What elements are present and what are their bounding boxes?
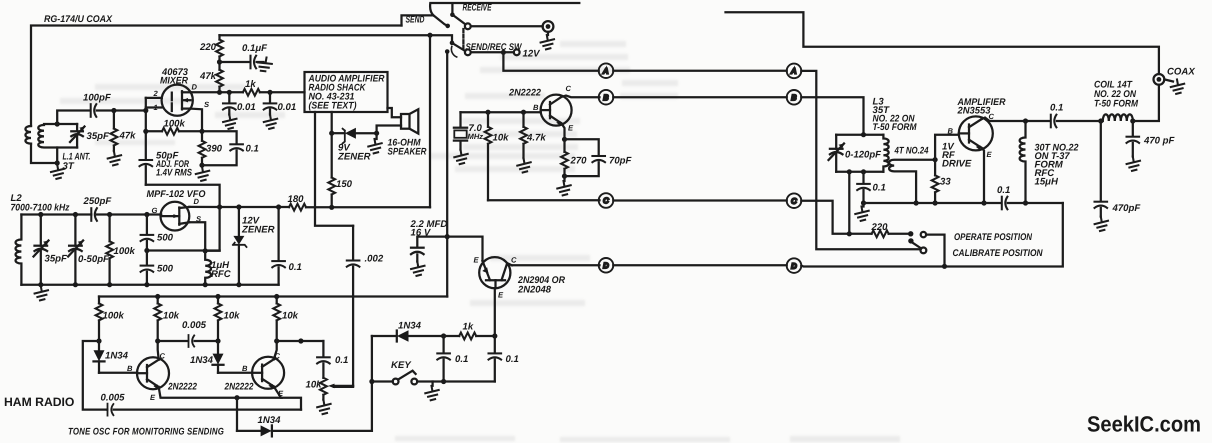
wire: amplifier collector line [982,118,1051,124]
svg-text:35pF: 35pF [45,254,69,265]
node circle C right [787,193,802,208]
svg-text:OPERATE POSITION: OPERATE POSITION [954,232,1033,243]
resistor 4.7k [520,112,527,158]
wire: RECEIVE line [430,3,579,15]
svg-text:10k: 10k [282,311,299,322]
switch arm: 12V pole [451,43,470,57]
resistor 100k mixer gate [146,128,205,135]
inductor L1 ANT. 3T [38,124,77,148]
inductor L3 35T [883,135,888,172]
svg-text:3T: 3T [63,161,75,172]
node: keyline contact [445,49,450,54]
svg-text:470pF: 470pF [1112,203,1142,214]
transistor 2N2222 7MHz oscillator [541,95,572,126]
svg-text:10k: 10k [163,311,180,322]
wire: C net from 10k to C node [488,199,600,201]
svg-text:G: G [152,206,158,215]
wire: gate 1 lead [146,106,162,108]
svg-text:E: E [474,256,480,265]
svg-text:RECEIVE: RECEIVE [463,3,492,14]
inductor L2 [16,215,22,285]
wire: Q2 collector riser [274,338,280,359]
svg-text:47k: 47k [119,131,137,142]
svg-text:180: 180 [288,194,305,205]
wire: Q1 collector riser [155,338,160,359]
ground at tank bypass [855,203,868,221]
svg-text:E: E [987,150,993,159]
resistor 10k (Q2 base feed) [215,297,222,344]
transistor 2N2222 tone Q1 [137,357,169,389]
wire: pole to 12V terminal [471,50,514,55]
svg-text:500: 500 [157,264,174,275]
capacitor 100pF coupling [91,104,97,117]
node circle D left [599,258,614,273]
resistor 220 (operate feed) [872,230,908,237]
svg-text:C: C [603,196,609,205]
svg-text:SEND/REC SW: SEND/REC SW [466,42,523,53]
wire: pole to antenna jack [471,25,543,27]
wire: L3 tank top [836,132,883,137]
node: L1 top [55,121,60,126]
svg-text:100k: 100k [164,119,186,130]
key switch [369,336,495,431]
svg-text:B: B [948,127,954,136]
resistor 10k (Q2 collector) [273,297,280,342]
svg-text:0-50pF: 0-50pF [78,254,110,265]
svg-text:0.1: 0.1 [873,183,886,194]
diode 1N34 (middle) [213,341,224,373]
svg-text:0.1: 0.1 [289,262,302,273]
wire: Q2 collector to 0.1 output [277,338,324,343]
svg-text:2N2048: 2N2048 [517,285,552,296]
svg-text:E: E [150,393,156,402]
svg-text:HAM RADIO: HAM RADIO [4,395,74,409]
svg-text:D: D [192,83,198,92]
svg-text:SEND: SEND [406,15,425,26]
transistor 2N3553 amplifier [959,116,993,150]
svg-text:0.1: 0.1 [997,185,1010,196]
crystal 7.0 MHz [454,112,467,150]
svg-text:MHz: MHz [468,132,484,141]
svg-text:C: C [275,352,281,361]
ground under second 0.01 [264,115,277,129]
antenna link coil 3T primary on coax [25,126,31,144]
capacitor 0.1 (tone output) [317,341,330,378]
capacitor 0.1 (key filter right) [489,336,502,382]
mosfet 40673 mixer [162,85,193,116]
diode 1N34 (bottom) [237,425,372,436]
wire: oscillator base rail [461,110,541,115]
terminal circle 12V [514,49,520,55]
node: 500pF tap on gate rail [144,212,149,217]
ground under 10k pot [317,400,330,414]
ground at 0.1uF [256,55,274,73]
ground under 470pF right [1127,157,1140,171]
svg-text:100pF: 100pF [83,93,112,104]
wire: osc collector to B line [561,96,599,98]
capacitor 0.1 (mixer source bypass) [202,131,243,165]
resistor 47k (drain load) [216,62,223,92]
ground under 270 [557,176,570,195]
dashed mechanical link SEND/REC SW [462,29,464,49]
wire: D bus [613,264,786,266]
node: L1 bottom ground node [55,148,60,166]
transistor 2N2904 keyer [479,257,512,288]
svg-text:A: A [602,66,608,75]
svg-text:0.1: 0.1 [506,354,519,365]
svg-text:CALIBRATE POSITION: CALIBRATE POSITION [953,248,1044,259]
capacitor 470pF (at coil output) [1127,121,1140,157]
wire: source node to feedback vertical [205,207,219,251]
ground at coax jack [1164,79,1184,94]
wire: mixer drain node [191,90,243,95]
svg-text:C: C [160,352,166,361]
wire: colpitts tap to source [147,249,220,251]
svg-text:70pF: 70pF [609,156,633,167]
svg-text:T-50 FORM: T-50 FORM [1094,99,1139,110]
node circle C left [599,193,614,208]
wire: B bus [613,96,786,98]
wire: L2 tank top rail [21,212,161,217]
ground at key [425,382,438,401]
coax output jack [1154,74,1165,85]
resistor 220 (decoupling) [216,35,223,64]
wire: SEND step on coax line [402,15,448,25]
wire: L2 tank bottom rail [21,282,278,287]
node circle A left [599,63,614,78]
svg-text:1N34: 1N34 [190,355,214,366]
wire: VFO drain rail to 180 [189,204,289,209]
svg-text:(SEE TEXT): (SEE TEXT) [309,101,357,112]
wire: D bus to amplifier return [801,203,1063,269]
jfet MPF-102 VFO [161,202,190,231]
resistor 10k (Q1 collector) [154,297,161,342]
svg-text:35pF: 35pF [87,131,111,142]
svg-text:0.1: 0.1 [335,355,348,366]
wire: A bus to operate switch [801,71,920,249]
wire: Q2 base lead [218,372,252,374]
svg-text:4T NO.24: 4T NO.24 [894,146,929,157]
diode 1N34 (key line) [372,330,446,341]
wire: coil to coax jack [1133,85,1159,121]
svg-text:1k: 1k [463,322,474,333]
node circle B right [787,90,802,105]
capacitor 50pF adjust [140,160,153,185]
svg-text:500: 500 [157,233,174,244]
resistor 150 [328,133,335,207]
wire: A bus [613,70,786,72]
svg-text:ZENER: ZENER [337,152,371,163]
coupling coil 4T NO.24 [889,157,938,206]
svg-text:S: S [196,215,201,224]
capacitor 0.1 (tank bottom bypass) [857,172,870,206]
wire: 12V down to A line [503,52,598,70]
ground at 9V zener [368,133,381,153]
svg-text:0.01: 0.01 [278,102,297,113]
svg-text:B: B [791,93,796,102]
svg-text:SeekIC.com: SeekIC.com [1087,412,1201,437]
svg-text:2: 2 [153,89,159,98]
contact circle: calibrate [921,232,926,237]
node circle B left [599,90,614,105]
svg-text:0.005: 0.005 [182,320,207,331]
wire: 2N2904 collector to D line [512,264,600,266]
wire: 2N2904 emitter feed [447,237,482,261]
svg-text:D: D [791,261,797,270]
wire: calibrate contact to D bus [926,235,944,264]
wire: +12V receive rail [220,33,453,43]
wire: 2N2904 base lead to 1k node [492,288,497,338]
zener diode 12V [233,207,247,285]
antenna jack [543,21,554,32]
svg-text:0.005: 0.005 [101,393,126,404]
capacitor 0.005 (feedback to coax) [107,404,301,416]
ground under 2.2 MFD [411,262,424,276]
wire: transmit line from top [726,12,1159,74]
svg-text:0.1: 0.1 [455,354,468,365]
capacitor 70pF [565,139,606,176]
svg-text:220: 220 [199,42,217,53]
resistor 100k (VFO gate) [106,215,113,285]
variable capacitor 0-50pF [68,215,83,285]
capacitor 2.2 MFD 16V electrolytic [411,237,447,262]
svg-text:2N2222: 2N2222 [167,382,197,393]
svg-text:E: E [498,291,504,300]
svg-text:2N2222: 2N2222 [508,88,542,99]
wire: amplifier ground rail [864,202,1063,204]
svg-text:B: B [533,103,539,112]
wire: 50pF bottom to VFO drain rail [146,185,220,207]
svg-text:B: B [127,364,133,373]
variable capacitor 35pF (L1 tank) [70,124,85,148]
wire: amplifier emitter to ground rail [981,148,986,206]
wire: mixer source to 100k/390 [190,109,202,132]
resistor 1k (keyer base) [444,333,495,340]
svg-text:470 pF: 470 pF [1143,136,1176,147]
ground on L2 bottom rail [35,286,48,300]
resistor 10k (osc base) [485,112,492,200]
diode 1N34 (left) [94,341,105,373]
wire: Q1 base lead [99,372,137,374]
ground under 47k antenna [108,151,121,165]
capacitor 0.01 (first) [223,92,236,114]
wire: C bus [613,199,786,201]
ground under crystal [454,150,467,164]
wire: gate 2 lead [146,97,162,99]
wire: pot wiper riser joins .002 line [352,385,354,387]
capacitor .002 [334,226,360,387]
wire: L1 top to 100pF [57,111,90,125]
wire: RG-174/U coax from antenna switch to receiver input [31,26,402,127]
capacitor 500 (upper) [141,215,154,254]
ground under 390 [196,167,209,181]
svg-text:1N34: 1N34 [398,321,422,332]
svg-text:1N34: 1N34 [105,351,129,362]
wire: box bottom to zener node [329,112,334,136]
svg-text:390: 390 [206,144,223,155]
node: send contact [445,24,450,29]
wire: link coil to L1 ground node [31,144,57,163]
node: operate contact [908,231,913,236]
svg-text:ZENER: ZENER [241,225,275,236]
svg-text:C: C [566,84,572,93]
svg-text:250pF: 250pF [83,196,113,207]
svg-text:KEY: KEY [391,360,412,371]
wire: B bus to L3 tank top [801,97,863,134]
svg-text:33: 33 [940,177,951,188]
svg-text:C: C [791,196,797,205]
svg-text:15μH: 15μH [1035,177,1059,188]
inductor COIL 14T output [1101,114,1136,123]
svg-text:A: A [790,67,796,76]
wire: sidetone tap to 1N34 bottom [236,398,238,431]
svg-text:D: D [603,261,609,270]
svg-text:270: 270 [570,156,588,167]
wire: Q1/Q2 emitter line [159,387,281,401]
capacitor 250pF series [91,208,97,221]
node: 47k junction [111,108,116,113]
svg-text:RG-174/U COAX: RG-174/U COAX [44,14,113,25]
svg-text:12V: 12V [523,49,542,60]
svg-text:0.1: 0.1 [1050,103,1063,114]
resistor 33 [932,160,939,206]
svg-text:2N2222: 2N2222 [224,382,254,393]
node circle D right [787,258,802,273]
capacitor 0.1 (key filter left) [437,336,450,384]
wire: osc emitter to 270 [561,123,567,142]
wire: 100pF to mixer gates [97,109,146,111]
ground under 4.7k [517,158,530,172]
variable capacitor 0-120pF [829,135,845,172]
svg-text:2N3553: 2N3553 [957,106,992,117]
wire: C bus to 220 resistor [801,201,871,237]
operate/calibrate switch [908,238,926,253]
svg-text:0.01: 0.01 [237,102,256,113]
node: receive contact [450,5,455,17]
svg-text:7000-7100 kHz: 7000-7100 kHz [11,203,70,214]
capacitor 500 (lower) [141,251,154,288]
node circle A right [787,64,802,79]
potentiometer 10k (tone level) [320,378,353,400]
capacitor 0.1 (collector coupling) [1051,115,1104,128]
transistor 2N2222 tone Q2 [252,357,284,389]
svg-text:B: B [603,93,608,102]
inductor 1uH RFC [205,251,211,285]
resistor 1k [243,89,305,96]
ground under 470pF left [1095,217,1108,231]
capacitor 470pF (at coil input) [1095,121,1108,217]
resistor 390 [199,131,206,167]
svg-text:TONE OSC FOR MONITORING SENDIN: TONE OSC FOR MONITORING SENDING [68,427,224,438]
audio amplifier box (Radio Shack 43-231) [305,72,388,112]
svg-text:16 V: 16 V [411,228,432,239]
svg-text:0.1μF: 0.1μF [242,43,268,54]
svg-text:D: D [194,197,200,206]
wire: amplifier base lead [935,135,959,160]
svg-text:100k: 100k [114,246,136,257]
svg-text:1.4V RMS: 1.4V RMS [156,168,192,179]
node: 12V send contact [450,41,455,46]
zener diode 9V [332,128,380,144]
svg-text:10k: 10k [306,380,323,391]
svg-text:COAX: COAX [1167,67,1195,78]
capacitor 0.1uF (rail bypass) [220,56,264,69]
capacitor 0.1 (VFO supply bypass) [272,207,285,285]
wire: box bottom left vertical to .002 [315,112,353,226]
svg-text:100k: 100k [103,311,125,322]
wire: 100k node to bottom 0.005 [83,341,107,410]
capacitor 0.01 (second) [264,92,277,114]
switch arm: antenna pole [452,15,470,30]
svg-text:10k: 10k [493,133,510,144]
wire: audio rail riser to switch [429,35,431,207]
ground under L1 [51,165,64,179]
svg-text:RFC: RFC [211,269,232,280]
svg-text:220: 220 [871,222,889,233]
svg-text:S: S [204,100,209,109]
resistor 270 [561,139,568,178]
capacitor 0.1 (series in ground rail) [1002,197,1008,210]
resistor 47k (antenna) [111,111,118,152]
wire: tone rail riser [445,52,450,297]
svg-text:0.1: 0.1 [246,144,259,155]
ground at antenna jack [541,32,554,50]
svg-text:C: C [989,112,995,121]
svg-text:4.7k: 4.7k [526,133,546,144]
svg-text:0-120pF: 0-120pF [845,150,882,161]
svg-text:150: 150 [336,179,353,190]
wire: Q2 emitter to bottom 0.005 rail [281,398,301,410]
svg-text:1N34: 1N34 [258,415,282,426]
svg-text:C: C [511,256,517,265]
svg-text:1k: 1k [245,79,256,90]
variable capacitor 35pF (VFO) [34,215,49,285]
wire: tone oscillator supply rail [99,294,447,299]
svg-text:47k: 47k [199,71,217,82]
capacitor 0.005 (cross coupling) [158,335,218,347]
svg-text:MIXER: MIXER [160,76,188,87]
svg-text:B: B [242,364,248,373]
resistor 180 [289,204,430,211]
svg-text:T-50 FORM: T-50 FORM [873,122,918,133]
wire: L3 tank bottom [836,169,883,174]
ground under first 0.01 [223,115,236,129]
wire: tank bottom to operate switch line [848,172,850,234]
inductor 30T RFC [1020,121,1028,206]
wire: VFO source to RFC [189,222,208,253]
svg-text:1: 1 [154,103,158,112]
svg-text:.002: .002 [365,254,384,265]
svg-text:DRIVE: DRIVE [942,159,972,170]
speaker 16-ohm [377,108,419,134]
svg-text:SPEAKER: SPEAKER [388,147,427,158]
svg-text:10k: 10k [224,311,241,322]
wire: gate bus vertical [143,98,148,160]
resistor 100k (tone osc) [96,297,103,344]
